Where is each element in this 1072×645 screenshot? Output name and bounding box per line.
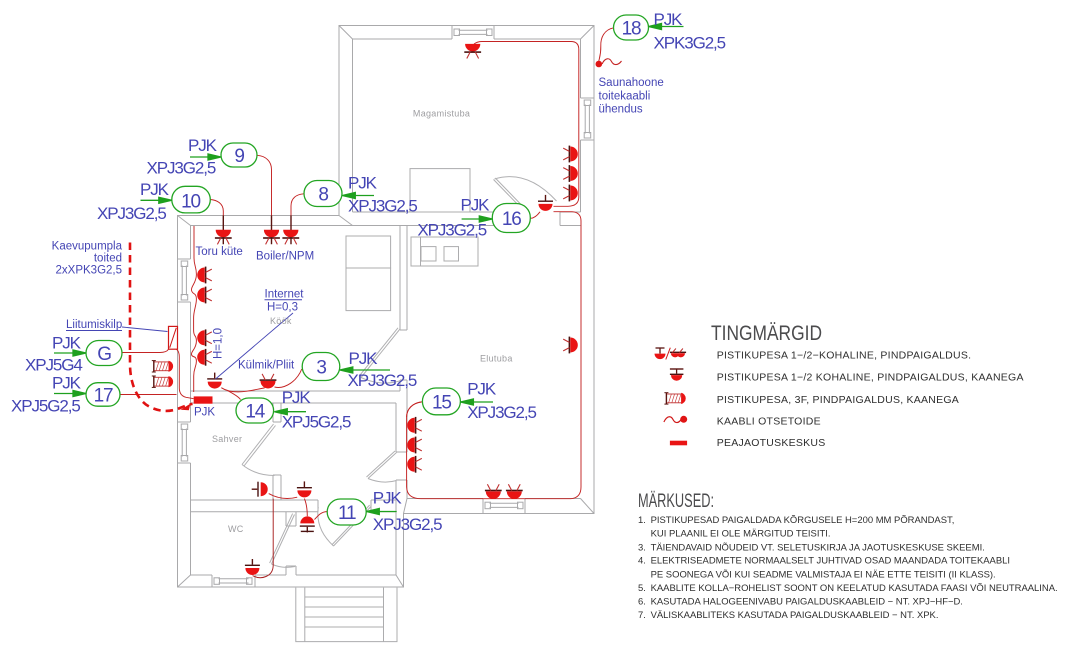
svg-text:PISTIKUPESA 1−/2−KOHALINE, PIN: PISTIKUPESA 1−/2−KOHALINE, PINDPAIGALDUS… <box>717 350 972 362</box>
svg-text:Liitumiskilp: Liitumiskilp <box>66 319 122 331</box>
svg-text:PJK: PJK <box>349 349 379 368</box>
svg-text:4.: 4. <box>638 556 646 567</box>
svg-text:VÄLISKAABLITEKS KASUTADA PAIGA: VÄLISKAABLITEKS KASUTADA PAIGALDUSKAABLE… <box>651 610 939 621</box>
svg-text:14: 14 <box>245 402 265 423</box>
svg-text:PJK: PJK <box>194 407 215 419</box>
svg-text:Magamistuba: Magamistuba <box>413 109 470 119</box>
svg-text:6.: 6. <box>638 597 646 608</box>
svg-text:3: 3 <box>316 358 326 379</box>
svg-text:Internet: Internet <box>265 289 305 301</box>
svg-text:XPJ3G2,5: XPJ3G2,5 <box>467 403 536 422</box>
svg-text:XPJ5G2,5: XPJ5G2,5 <box>282 413 351 432</box>
svg-text:16: 16 <box>502 209 521 230</box>
svg-text:G: G <box>97 344 111 365</box>
svg-text:PJK: PJK <box>52 374 82 393</box>
svg-text:XPJ3G2,5: XPJ3G2,5 <box>348 371 417 390</box>
svg-text:PJK: PJK <box>654 10 684 29</box>
svg-text:toited: toited <box>94 253 122 265</box>
svg-text:XPJ3G2,5: XPJ3G2,5 <box>373 515 442 534</box>
svg-text:5.: 5. <box>638 583 646 594</box>
svg-text:H=1,0: H=1,0 <box>213 328 225 359</box>
svg-text:Köök: Köök <box>270 316 292 326</box>
svg-text:11: 11 <box>338 503 356 524</box>
svg-text:PJK: PJK <box>282 388 312 407</box>
svg-text:Kaevupumpla: Kaevupumpla <box>52 241 123 253</box>
svg-text:KASUTADA HALOGEENIVABU PAIGALD: KASUTADA HALOGEENIVABU PAIGALDUSKAABLEID… <box>651 597 963 608</box>
svg-text:KAABLITE KOLLA−ROHELIST SOONT: KAABLITE KOLLA−ROHELIST SOONT ON KEELATU… <box>651 583 1058 594</box>
svg-text:H=0,3: H=0,3 <box>267 302 298 314</box>
svg-text:PJK: PJK <box>348 174 378 193</box>
svg-text:PISTIKUPESA, 3F, PINDPAIGALDUS: PISTIKUPESA, 3F, PINDPAIGALDUS, KAANEGA <box>717 394 959 406</box>
svg-text:PJK: PJK <box>188 136 218 155</box>
svg-text:PEAJAOTUSKESKUS: PEAJAOTUSKESKUS <box>717 437 826 449</box>
svg-text:toitekaabli: toitekaabli <box>599 91 651 103</box>
svg-text:ELEKTRISEADMETE NORMAALSELT JU: ELEKTRISEADMETE NORMAALSELT JUHTIVAD OSA… <box>651 556 1010 567</box>
svg-text:8: 8 <box>318 185 328 206</box>
svg-text:XPK3G2,5: XPK3G2,5 <box>654 34 726 53</box>
svg-text:XPJ3G2,5: XPJ3G2,5 <box>417 221 486 240</box>
svg-text:MÄRKUSED:: MÄRKUSED: <box>638 490 714 512</box>
svg-text:Saunahoone: Saunahoone <box>599 77 664 89</box>
svg-text:XPJ3G2,5: XPJ3G2,5 <box>147 159 216 178</box>
svg-text:PE SOONEGA VÕI KUI SEADME VALM: PE SOONEGA VÕI KUI SEADME VALMISTAJA EI … <box>651 570 996 581</box>
svg-text:PJK: PJK <box>373 489 403 508</box>
svg-text:Sahver: Sahver <box>212 434 242 444</box>
svg-text:TÄIENDAVAID NÕUDEID VT. SELETU: TÄIENDAVAID NÕUDEID VT. SELETUSKIRJA JA … <box>651 543 985 554</box>
svg-text:Toru küte: Toru küte <box>196 246 243 258</box>
svg-text:TINGMÄRGID: TINGMÄRGID <box>711 322 822 345</box>
svg-text:XPJ3G2,5: XPJ3G2,5 <box>97 204 166 223</box>
svg-text:Elutuba: Elutuba <box>480 354 513 364</box>
svg-text:PJK: PJK <box>52 334 82 353</box>
svg-text:PJK: PJK <box>140 180 170 199</box>
svg-text:2xXPK3G2,5: 2xXPK3G2,5 <box>56 265 122 277</box>
svg-text:WC: WC <box>228 524 244 534</box>
svg-text:XPJ5G4: XPJ5G4 <box>25 356 82 375</box>
svg-text:7.: 7. <box>638 610 646 621</box>
svg-text:ühendus: ühendus <box>599 104 643 116</box>
svg-text:PISTIKUPESAD PAIGALDADA KÕRGUS: PISTIKUPESAD PAIGALDADA KÕRGUSELE H=200 … <box>651 515 955 526</box>
svg-text:17: 17 <box>94 386 113 407</box>
svg-text:15: 15 <box>432 393 451 414</box>
svg-text:XPJ5G2,5: XPJ5G2,5 <box>11 397 80 416</box>
svg-text:Boiler/NPM: Boiler/NPM <box>256 251 314 263</box>
svg-text:9: 9 <box>234 146 244 167</box>
svg-text:KAABLI OTSETOIDE: KAABLI OTSETOIDE <box>717 416 821 428</box>
svg-text:1.: 1. <box>638 515 646 526</box>
svg-text:PISTIKUPESA 1−/2 KOHALINE, PIN: PISTIKUPESA 1−/2 KOHALINE, PINDPAIGALDUS… <box>717 372 1024 384</box>
svg-text:PJK: PJK <box>461 196 491 215</box>
svg-text:PJK: PJK <box>467 380 497 399</box>
svg-text:KUI PLAANIL EI OLE MÄRGITUD TE: KUI PLAANIL EI OLE MÄRGITUD TEISITI. <box>651 529 831 540</box>
svg-text:XPJ3G2,5: XPJ3G2,5 <box>348 197 417 216</box>
svg-text:18: 18 <box>622 19 641 40</box>
svg-text:10: 10 <box>181 192 200 213</box>
svg-text:3.: 3. <box>638 543 646 554</box>
svg-text:Külmik/Pliit: Külmik/Pliit <box>238 360 295 372</box>
